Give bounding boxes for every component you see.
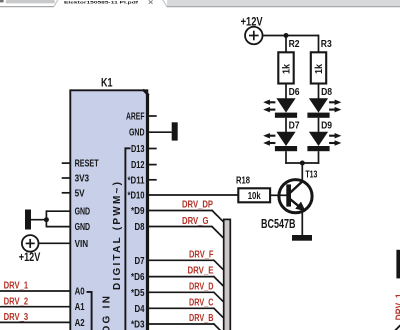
wire D8 to D9: [318, 118, 320, 132]
svg-text:A2: A2: [75, 318, 85, 329]
junction dot collector node: [300, 161, 305, 166]
wire rail to R2: [285, 36, 287, 53]
LED D7 cathode bar: [275, 146, 297, 151]
svg-text:D9: D9: [321, 120, 332, 131]
+12V supply symbol top (circle plus): [245, 27, 262, 45]
svg-text:T13: T13: [305, 170, 317, 181]
wire D6 to D7: [285, 118, 287, 132]
svg-text:D13: D13: [131, 144, 145, 155]
wire D4 diagonal into bus: [213, 308, 223, 318]
wire D7 diagonal into bus: [213, 260, 223, 270]
svg-text:DIGITAL (PWM~): DIGITAL (PWM~): [112, 182, 123, 290]
pin D13 stub: [147, 148, 157, 150]
wire D8 diagonal into bus: [211, 226, 223, 238]
wire R2 to D6: [285, 84, 287, 99]
svg-text:RESET: RESET: [75, 159, 99, 170]
svg-text:Elektor150585-11 Pl.pdf: Elektor150585-11 Pl.pdf: [64, 0, 139, 5]
svg-text:DRV_1: DRV_1: [395, 293, 400, 320]
svg-text:D7: D7: [289, 120, 300, 131]
svg-text:1k: 1k: [314, 64, 325, 74]
wire D6 (DRV_E) horizontal: [147, 276, 214, 278]
wire DRV_1 to A0: [0, 290, 71, 292]
pin 3V3 stub: [62, 177, 71, 179]
+12V supply symbol left (circle plus): [22, 235, 39, 252]
svg-text:GND: GND: [75, 207, 91, 218]
junction dot +12V rail: [284, 33, 289, 38]
svg-text:+12V: +12V: [19, 250, 41, 264]
wire D7 to bottom rail: [285, 151, 287, 164]
svg-text:BC547B: BC547B: [261, 217, 296, 231]
wire D3 (DRV_B) horizontal: [147, 323, 214, 325]
svg-text:GND: GND: [75, 222, 91, 233]
wire GND pin to ground: [147, 131, 172, 133]
LED D8 light arrows: [329, 101, 335, 103]
browser tab strip background band: [167, 0, 400, 6]
svg-text:3V3: 3V3: [75, 174, 90, 185]
tab strip bottom border line: [0, 6, 54, 8]
next stage block edge (right): [396, 250, 400, 279]
ground symbol left (bar): [25, 210, 31, 230]
wire D5 diagonal into bus: [213, 292, 223, 302]
resistor R2 body: [278, 52, 293, 83]
active tab right edge: [163, 0, 167, 6]
active tab left edge: [54, 0, 58, 6]
wire LED bottom rail: [285, 162, 319, 164]
svg-text:DRV_DP: DRV_DP: [182, 199, 213, 210]
svg-text:DRV_E: DRV_E: [188, 266, 214, 277]
IC K1 body (Arduino module): [70, 90, 147, 330]
svg-text:+12V: +12V: [241, 15, 263, 29]
ground symbol under T13 (bar): [292, 235, 312, 241]
svg-text:K1: K1: [101, 75, 113, 89]
pin RESET stub: [62, 162, 71, 164]
svg-text:D8: D8: [321, 87, 332, 98]
pin 5V stub: [62, 192, 71, 194]
svg-text:D12: D12: [131, 160, 145, 171]
IC K1 top-right chamfer: [143, 90, 149, 96]
svg-text:DRV_G: DRV_G: [182, 216, 209, 227]
wire rail to collector: [301, 163, 303, 181]
wire D6 diagonal into bus: [213, 276, 223, 286]
resistor R18 body: [238, 188, 270, 202]
wire R3 to D8: [318, 84, 320, 99]
wire D10 to R18: [147, 194, 238, 196]
wire vertical joining GND pins: [45, 210, 47, 227]
svg-text:DRV_3: DRV_3: [4, 312, 29, 323]
svg-text:*D6: *D6: [131, 272, 145, 283]
wire D8 (DRV_G) horizontal: [147, 226, 212, 228]
pin D11 stub: [147, 179, 157, 181]
svg-text:R3: R3: [321, 39, 332, 50]
wire R18 to base: [271, 194, 287, 196]
svg-text:R2: R2: [289, 39, 300, 50]
LED D9 triangle: [309, 132, 328, 146]
LED D6 light arrows: [269, 101, 275, 103]
svg-text:A1: A1: [75, 302, 85, 313]
LED D8 cathode bar: [307, 113, 329, 118]
svg-text:DRV_F: DRV_F: [189, 249, 214, 260]
wire D3 diagonal into bus: [213, 323, 223, 330]
svg-text:*D5: *D5: [131, 288, 145, 299]
wire +12V rail: [263, 35, 319, 37]
IC K1 thick right border: [146, 94, 149, 330]
wire D7 (DRV_F) horizontal: [147, 259, 214, 261]
tab close X: [149, 0, 153, 4]
wire GND1 pin to junction: [46, 210, 70, 212]
wire rail to R3: [318, 35, 320, 52]
wire D9 to bottom rail: [318, 151, 320, 164]
svg-text:*D11: *D11: [128, 175, 145, 186]
transistor T13 circle: [279, 180, 312, 213]
svg-text:5V: 5V: [75, 188, 85, 199]
transistor T13 base bar: [286, 184, 291, 206]
svg-text:*D3: *D3: [131, 320, 145, 330]
wire VIN to +12V: [39, 242, 71, 244]
svg-text:1k: 1k: [282, 64, 293, 74]
svg-text:D7: D7: [135, 256, 145, 267]
pin AREF stub: [147, 115, 157, 117]
transistor T13 emitter diagonal with arrow: [290, 199, 299, 207]
dark text fragment far top-left: [0, 0, 4, 2]
svg-text:D8: D8: [135, 222, 145, 233]
LED D6 triangle: [276, 98, 295, 112]
svg-text:DRV_D: DRV_D: [189, 281, 214, 292]
junction dot GND node: [44, 217, 49, 222]
svg-text:GND: GND: [129, 128, 145, 139]
svg-text:*D10: *D10: [128, 191, 145, 202]
wire diagonal bottom-right corner: [395, 325, 400, 330]
wire emitter to ground: [301, 212, 303, 236]
svg-text:*D9: *D9: [131, 206, 145, 217]
wire DRV_3 to A2: [0, 321, 71, 323]
LED D9 light arrows: [329, 135, 335, 137]
wire D5 (DRV_D) horizontal: [147, 291, 214, 293]
LED D8 triangle: [309, 98, 328, 112]
wire ground symbol to junction: [30, 219, 46, 221]
svg-text:DRV_B: DRV_B: [189, 313, 214, 324]
svg-text:DRV_1: DRV_1: [4, 281, 29, 292]
svg-text:AREF: AREF: [126, 112, 145, 123]
resistor R3 body: [311, 52, 326, 83]
svg-text:DRV_C: DRV_C: [189, 297, 214, 308]
transistor T13 collector diagonal: [290, 181, 303, 193]
LED D7 triangle: [276, 132, 295, 146]
LED D9 cathode bar: [307, 146, 329, 151]
svg-text:A0: A0: [75, 287, 85, 298]
wire D4 (DRV_C) horizontal: [147, 307, 214, 309]
wire DRV_2 to A1: [0, 306, 71, 308]
wire D9 (DRV_DP) horizontal: [147, 210, 212, 212]
svg-text:DRV_2: DRV_2: [4, 296, 29, 307]
svg-text:VIN: VIN: [75, 239, 89, 250]
svg-text:R18: R18: [236, 175, 250, 186]
wire GND2 pin to junction: [46, 226, 70, 228]
svg-text:D6: D6: [289, 87, 300, 98]
wire D9 diagonal into bus: [212, 210, 224, 222]
LED D6 cathode bar: [275, 113, 297, 118]
inactive tab title pill: [6, 0, 56, 3]
signal bus bar: [224, 219, 231, 330]
ANALOG IN group bracket: [87, 292, 92, 330]
ground symbol right (bar): [172, 122, 178, 140]
svg-text:10k: 10k: [248, 191, 261, 202]
svg-text:D4: D4: [135, 304, 145, 315]
DIGITAL (PWM~) group bracket: [125, 148, 130, 330]
LED D7 light arrows: [269, 135, 275, 137]
pin D12 stub: [147, 164, 157, 166]
